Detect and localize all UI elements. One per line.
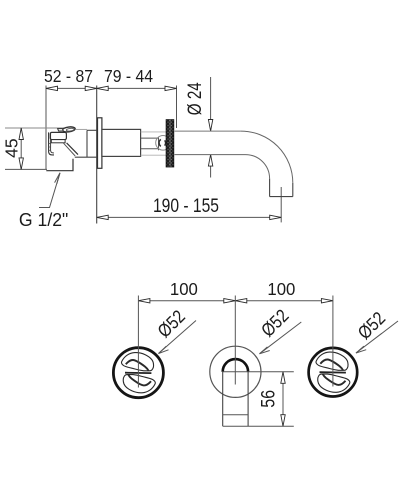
svg-text:100: 100 bbox=[267, 279, 295, 300]
svg-text:79 - 44: 79 - 44 bbox=[104, 66, 153, 86]
svg-text:100: 100 bbox=[170, 279, 198, 300]
svg-text:G 1/2": G 1/2" bbox=[19, 210, 68, 230]
svg-text:52 - 87: 52 - 87 bbox=[44, 66, 93, 86]
svg-text:56: 56 bbox=[257, 390, 279, 408]
svg-text:Ø 24: Ø 24 bbox=[183, 82, 205, 115]
svg-text:45: 45 bbox=[1, 138, 21, 157]
svg-text:190 - 155: 190 - 155 bbox=[153, 194, 219, 216]
